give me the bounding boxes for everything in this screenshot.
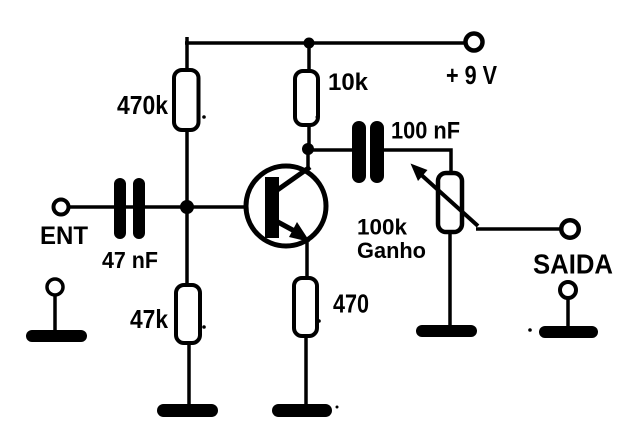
terminal ENT input xyxy=(54,200,69,215)
ground under R2 xyxy=(157,404,218,417)
wire C2 to potentiometer top xyxy=(384,150,451,172)
terminal ENT ground pin xyxy=(47,279,63,295)
wire SAIDA ground stem xyxy=(566,298,570,327)
speck artifact near ground 2 xyxy=(336,406,339,409)
potentiometer R5 100k body xyxy=(438,173,462,232)
resistor R2 47k xyxy=(176,285,200,343)
wire R2 bottom to ground xyxy=(187,345,191,406)
svg-text:SAIDA: SAIDA xyxy=(533,249,613,280)
resistor R1 470k xyxy=(174,70,199,130)
wire wiper to SAIDA terminal xyxy=(476,227,561,231)
svg-text:47 nF: 47 nF xyxy=(102,247,158,273)
terminal +9V xyxy=(466,34,483,51)
speck artifact near 470k xyxy=(202,115,206,119)
resistor R4 470 xyxy=(294,278,317,336)
wire potentiometer bottom to ground xyxy=(448,234,452,327)
wire top supply rail xyxy=(185,41,464,45)
speck artifact near SAIDA ground xyxy=(528,328,532,332)
wire R1 bottom to node B to R2 top xyxy=(185,131,189,284)
svg-text:100 nF: 100 nF xyxy=(391,118,460,145)
svg-text:470k: 470k xyxy=(117,90,168,120)
svg-text:+ 9 V: + 9 V xyxy=(446,60,498,90)
speck artifact near 470 xyxy=(317,319,321,323)
wire stub rail to R1 top xyxy=(185,37,189,70)
svg-text:ENT: ENT xyxy=(40,222,88,250)
svg-text:10k: 10k xyxy=(328,69,369,96)
node rail junction dot xyxy=(304,38,315,49)
ground SAIDA xyxy=(539,326,598,338)
potentiometer wiper arrow xyxy=(411,164,479,227)
svg-text:100k: 100k xyxy=(357,215,408,240)
wire R3 bottom to node C xyxy=(307,126,311,152)
svg-text:47k: 47k xyxy=(130,304,168,334)
wire emitter to R4 xyxy=(305,240,309,277)
wire R4 bottom to ground xyxy=(304,338,308,406)
resistor R3 10k xyxy=(295,71,318,125)
terminal SAIDA ground pin xyxy=(560,282,576,298)
capacitor C1 47nF xyxy=(114,178,145,239)
transistor Q1 xyxy=(246,166,326,246)
wire node C to C2 xyxy=(312,148,353,152)
svg-text:470: 470 xyxy=(333,289,369,319)
ground ENT xyxy=(26,330,87,342)
wire rail to R3 top xyxy=(307,43,311,70)
terminal SAIDA output xyxy=(561,220,579,238)
node B junction dot xyxy=(180,200,194,214)
wire base wire ENT to transistor xyxy=(68,205,265,209)
capacitor C2 100nF xyxy=(352,121,384,183)
wire node C to collector xyxy=(306,149,310,170)
ground under potentiometer xyxy=(416,325,477,337)
ground under R4 xyxy=(272,404,332,417)
speck artifact near 47k xyxy=(202,325,206,329)
svg-text:Ganho: Ganho xyxy=(357,238,426,263)
node C collector junction dot xyxy=(302,143,314,155)
wire ENT ground stem xyxy=(53,295,57,331)
speck artifact near 10k xyxy=(316,116,319,119)
